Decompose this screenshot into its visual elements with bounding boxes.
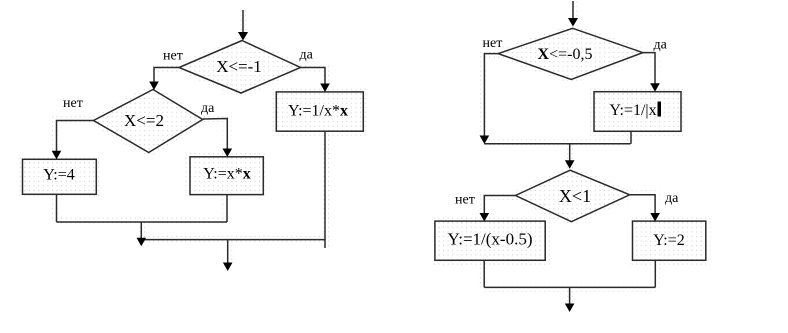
- svg-text:X<1: X<1: [559, 186, 591, 206]
- wire yes-branch R2: [630, 195, 655, 215]
- svg-text:X<=-1: X<=-1: [216, 57, 262, 76]
- arrowhead exit left chart: [223, 263, 233, 272]
- wire exit right chart: [569, 287, 571, 304]
- arrowhead merge drop left chart: [137, 238, 147, 247]
- arrowhead yes-branch R1: [650, 83, 660, 92]
- wire top entry left chart: [242, 10, 244, 34]
- svg-text:нет: нет: [483, 36, 503, 51]
- svg-text:Y:=1/(x-0.5): Y:=1/(x-0.5): [448, 230, 533, 249]
- cursor bar after x: [658, 102, 662, 117]
- wire merge horizontal 2: [141, 239, 324, 241]
- svg-text:нет: нет: [63, 96, 83, 111]
- decision R2 diamond: [516, 170, 630, 222]
- wire from Y:=2 down: [654, 260, 656, 287]
- wire no-branch D2: [57, 121, 94, 154]
- wire from Y:=x*x down: [226, 195, 228, 222]
- arrowhead no-branch R2: [480, 213, 490, 222]
- wire drop to decision R2: [569, 144, 571, 162]
- process box Y:=x*x: [190, 157, 263, 195]
- decision D1 diamond: [179, 41, 301, 94]
- arrowhead into D1: [238, 32, 248, 41]
- arrowhead into R1: [568, 18, 578, 27]
- process box Y:=4: [23, 159, 97, 194]
- wire drop to merge 2: [140, 222, 142, 240]
- process box Y:=2: [633, 221, 706, 260]
- svg-text:да: да: [665, 191, 679, 206]
- decision D2 diamond: [94, 90, 203, 153]
- process box Y:=1/|x|: [594, 92, 681, 132]
- svg-text:Y:=2: Y:=2: [653, 232, 685, 249]
- svg-text:X<=2: X<=2: [124, 111, 164, 130]
- wire from Y:=1/(x-0.5) down: [483, 260, 485, 287]
- wire exit left chart: [227, 240, 229, 264]
- svg-text:да: да: [201, 101, 215, 116]
- wire merge horizontal bottom right chart: [484, 286, 655, 288]
- arrowhead exit right chart: [565, 304, 575, 313]
- svg-text:X<=-0,5: X<=-0,5: [538, 46, 593, 63]
- wire no-branch R2: [484, 196, 515, 216]
- arrowhead drop into R2: [565, 160, 575, 169]
- wire yes-branch D2: [203, 119, 228, 152]
- wire yes-branch D1: [301, 68, 326, 87]
- svg-text:нет: нет: [455, 193, 475, 208]
- svg-text:нет: нет: [163, 49, 183, 64]
- svg-text:Y:=1/|x: Y:=1/|x: [609, 102, 656, 119]
- dotted halo layer (texture): [23, 1, 706, 304]
- wire from Y:=4 down: [56, 194, 58, 222]
- svg-text:Y:=x*x: Y:=x*x: [203, 166, 251, 183]
- wire no-branch D1: [154, 68, 179, 85]
- arrowhead yes-branch D2: [223, 149, 233, 158]
- arrowhead no-branch D2: [52, 151, 62, 160]
- arrowhead yes-branch R2: [650, 213, 660, 222]
- arrowhead yes-branch D1: [320, 84, 330, 93]
- svg-text:да: да: [654, 38, 668, 53]
- wire from Y:=1/x*x down: [324, 131, 326, 248]
- arrowhead no-branch R1: [480, 136, 490, 145]
- wire yes-branch R1: [643, 53, 655, 85]
- svg-text:Y:=1/x*x: Y:=1/x*x: [288, 103, 348, 120]
- decision R1 diamond: [498, 28, 643, 79]
- svg-text:Y:=4: Y:=4: [43, 167, 75, 184]
- wire top entry right chart: [572, 1, 574, 19]
- arrowhead no-branch D1: [149, 82, 159, 91]
- svg-text:да: да: [300, 48, 314, 63]
- wire from Y:=1/|x| down: [630, 131, 632, 144]
- wire no-branch R1: [484, 54, 498, 137]
- process box Y:=1/x*x: [276, 92, 363, 131]
- wire merge horizontal 1: [57, 221, 228, 223]
- process box Y:=1/(x-0.5): [435, 221, 545, 260]
- wire merge horizontal right chart: [484, 143, 630, 145]
